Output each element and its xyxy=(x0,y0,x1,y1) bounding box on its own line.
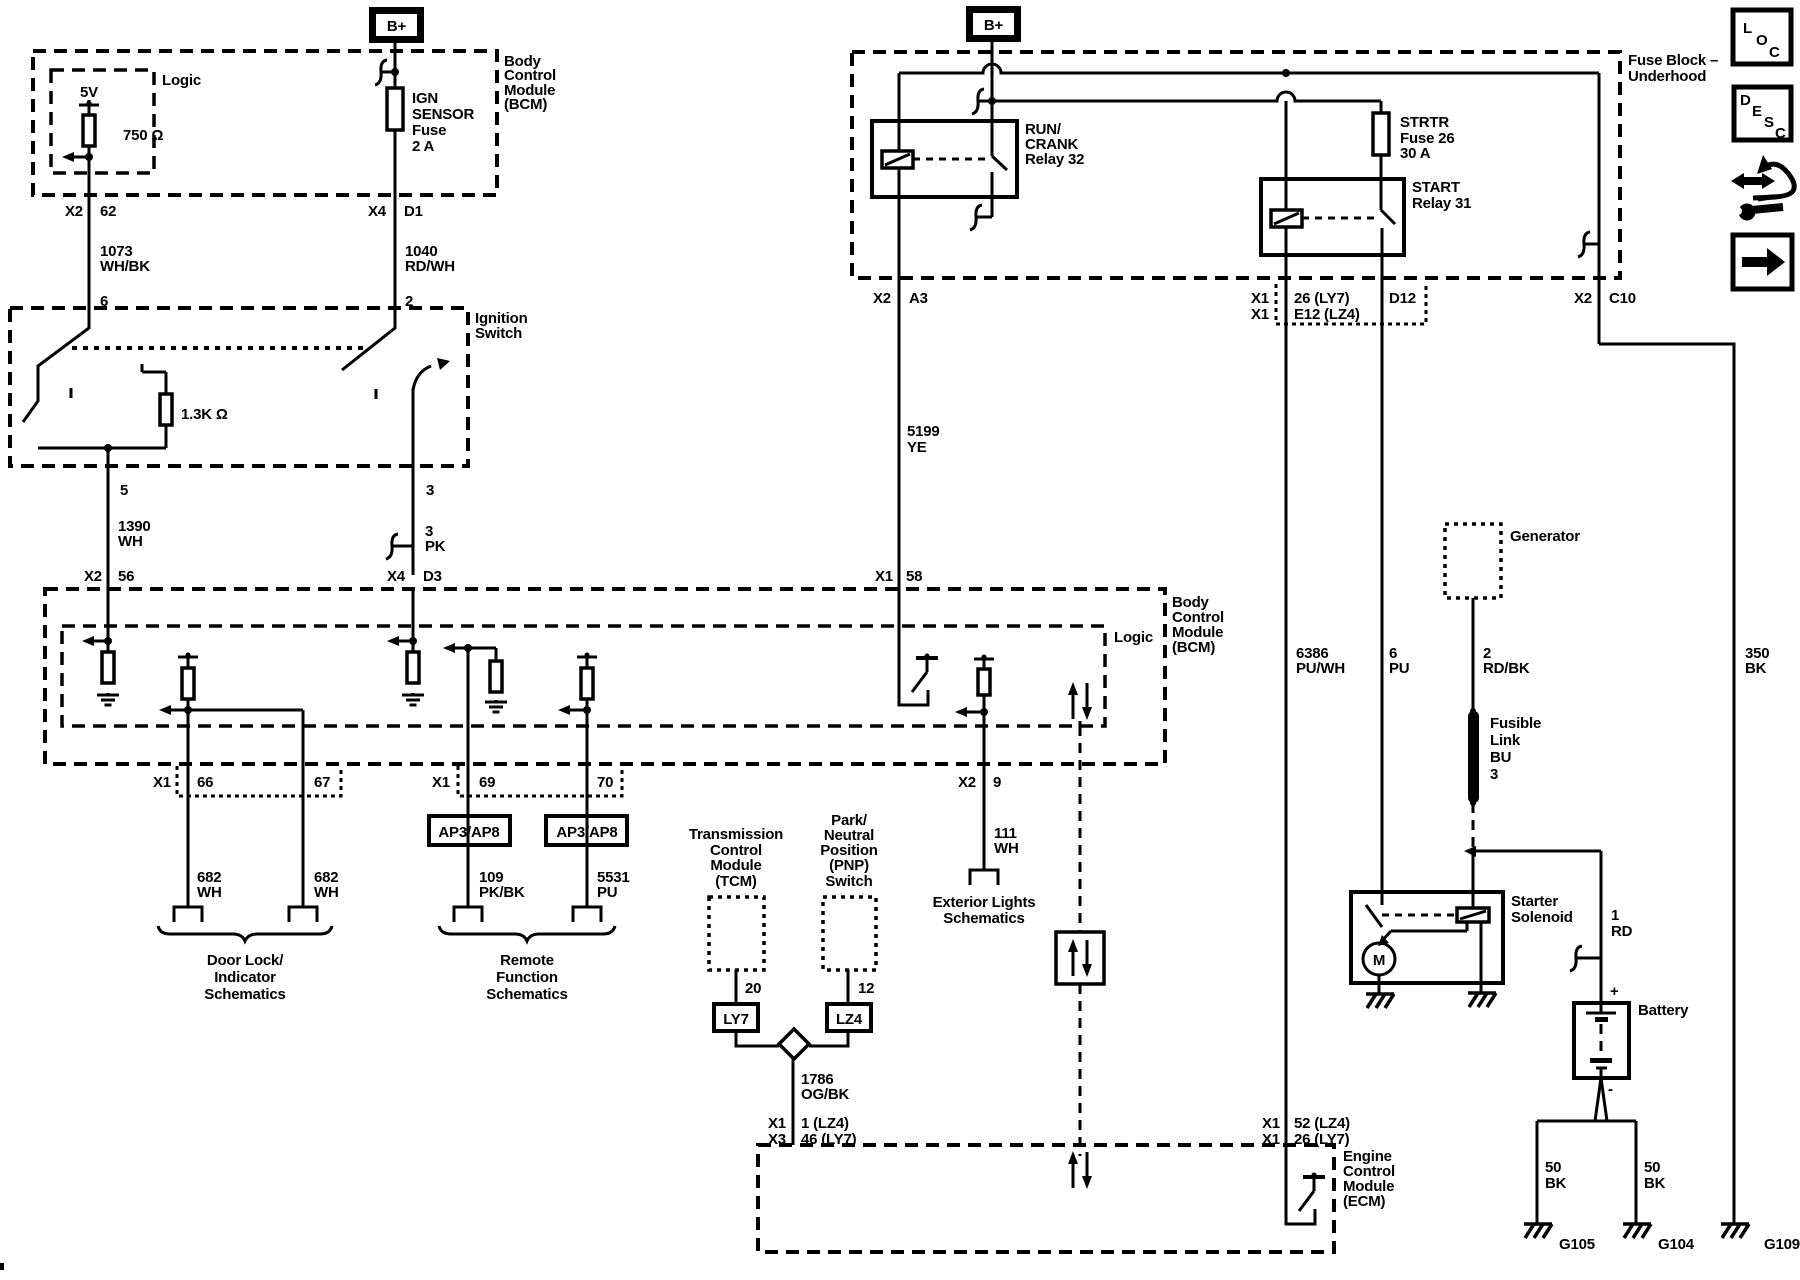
svg-text:69: 69 xyxy=(479,774,495,791)
svg-text:66: 66 xyxy=(197,774,213,791)
svg-text:X2: X2 xyxy=(84,568,102,585)
svg-text:PU: PU xyxy=(597,884,617,901)
svg-text:Underhood: Underhood xyxy=(1628,68,1706,85)
svg-text:Generator: Generator xyxy=(1510,528,1580,545)
svg-text:M: M xyxy=(1373,952,1385,969)
svg-text:X2: X2 xyxy=(1574,290,1592,307)
svg-text:START: START xyxy=(1412,179,1460,196)
svg-text:1 (LZ4): 1 (LZ4) xyxy=(801,1115,849,1132)
svg-text:Remote: Remote xyxy=(500,952,554,969)
svg-text:RD/BK: RD/BK xyxy=(1483,660,1530,677)
svg-text:Door Lock/: Door Lock/ xyxy=(207,952,284,969)
svg-text:BK: BK xyxy=(1745,660,1767,677)
svg-text:50: 50 xyxy=(1644,1159,1660,1176)
svg-text:X1: X1 xyxy=(432,774,450,791)
svg-text:26 (LY7): 26 (LY7) xyxy=(1294,290,1350,307)
svg-text:S: S xyxy=(1764,114,1774,131)
svg-text:D3: D3 xyxy=(423,568,442,585)
svg-text:12: 12 xyxy=(858,980,874,997)
svg-text:AP3/AP8: AP3/AP8 xyxy=(556,824,617,841)
svg-text:D12: D12 xyxy=(1389,290,1416,307)
svg-text:Link: Link xyxy=(1490,732,1521,749)
svg-text:IGN: IGN xyxy=(412,90,438,107)
svg-text:G109: G109 xyxy=(1764,1236,1800,1253)
svg-text:BU: BU xyxy=(1490,749,1511,766)
svg-text:Switch: Switch xyxy=(825,873,872,890)
svg-text:(PNP): (PNP) xyxy=(829,857,869,874)
svg-text:RD: RD xyxy=(1611,923,1633,940)
svg-text:C: C xyxy=(1775,125,1786,142)
svg-text:750 Ω: 750 Ω xyxy=(123,127,163,144)
svg-text:(BCM): (BCM) xyxy=(1172,639,1215,656)
svg-text:58: 58 xyxy=(906,568,922,585)
svg-text:9: 9 xyxy=(993,774,1001,791)
svg-text:62: 62 xyxy=(100,203,116,220)
svg-text:52 (LZ4): 52 (LZ4) xyxy=(1294,1115,1350,1132)
svg-text:LY7: LY7 xyxy=(723,1011,749,1028)
svg-text:Fuse Block –: Fuse Block – xyxy=(1628,52,1718,69)
svg-text:WH/BK: WH/BK xyxy=(100,258,150,275)
svg-text:LZ4: LZ4 xyxy=(836,1011,863,1028)
svg-text:WH: WH xyxy=(197,884,222,901)
svg-text:70: 70 xyxy=(597,774,613,791)
svg-text:67: 67 xyxy=(314,774,330,791)
svg-text:X1: X1 xyxy=(153,774,171,791)
svg-text:Logic: Logic xyxy=(1114,629,1153,646)
svg-text:E12 (LZ4): E12 (LZ4) xyxy=(1294,306,1360,323)
svg-text:B+: B+ xyxy=(984,17,1004,34)
svg-text:Logic: Logic xyxy=(162,72,201,89)
svg-text:X1: X1 xyxy=(1262,1131,1280,1148)
svg-text:PU/WH: PU/WH xyxy=(1296,660,1345,677)
svg-text:STRTR: STRTR xyxy=(1400,114,1449,131)
svg-text:3: 3 xyxy=(426,482,434,499)
svg-text:D: D xyxy=(1740,92,1751,109)
svg-text:5V: 5V xyxy=(80,84,98,101)
svg-text:Schematics: Schematics xyxy=(204,986,285,1003)
svg-text:Schematics: Schematics xyxy=(943,910,1024,927)
svg-text:BK: BK xyxy=(1545,1175,1567,1192)
svg-text:OG/BK: OG/BK xyxy=(801,1086,850,1103)
svg-text:L: L xyxy=(1743,20,1752,37)
svg-text:50: 50 xyxy=(1545,1159,1561,1176)
svg-text:E: E xyxy=(1752,103,1762,120)
svg-text:WH: WH xyxy=(994,840,1019,857)
svg-text:X1: X1 xyxy=(1251,290,1269,307)
svg-text:G105: G105 xyxy=(1559,1236,1595,1253)
svg-text:PK/BK: PK/BK xyxy=(479,884,525,901)
svg-text:(TCM): (TCM) xyxy=(715,873,757,890)
svg-text:Transmission: Transmission xyxy=(689,826,783,843)
svg-text:5: 5 xyxy=(120,482,128,499)
svg-text:PK: PK xyxy=(425,538,446,555)
svg-text:O: O xyxy=(1756,32,1768,49)
svg-text:G104: G104 xyxy=(1658,1236,1695,1253)
svg-text:A3: A3 xyxy=(909,290,928,307)
svg-text:2 A: 2 A xyxy=(412,138,435,155)
svg-text:30 A: 30 A xyxy=(1400,145,1431,162)
svg-text:WH: WH xyxy=(314,884,339,901)
svg-text:WH: WH xyxy=(118,533,143,550)
svg-text:X1: X1 xyxy=(768,1115,786,1132)
svg-text:+: + xyxy=(1610,983,1619,1000)
svg-text:Function: Function xyxy=(496,969,558,986)
svg-text:X2: X2 xyxy=(873,290,891,307)
svg-text:Switch: Switch xyxy=(475,325,522,342)
svg-text:3: 3 xyxy=(1490,766,1498,783)
svg-text:(ECM): (ECM) xyxy=(1343,1193,1386,1210)
svg-text:-: - xyxy=(1608,1081,1613,1098)
svg-text:RD/WH: RD/WH xyxy=(405,258,455,275)
svg-text:1: 1 xyxy=(1611,907,1619,924)
svg-text:Relay 31: Relay 31 xyxy=(1412,195,1471,212)
svg-text:1.3K Ω: 1.3K Ω xyxy=(181,406,228,423)
svg-text:Fusible: Fusible xyxy=(1490,715,1541,732)
svg-text:Relay 32: Relay 32 xyxy=(1025,151,1084,168)
svg-text:56: 56 xyxy=(118,568,134,585)
svg-text:X1: X1 xyxy=(1262,1115,1280,1132)
svg-text:C: C xyxy=(1769,44,1780,61)
svg-text:Module: Module xyxy=(710,857,761,874)
svg-text:Exterior Lights: Exterior Lights xyxy=(933,894,1036,911)
svg-text:X4: X4 xyxy=(387,568,406,585)
svg-text:X2: X2 xyxy=(65,203,83,220)
svg-text:C10: C10 xyxy=(1609,290,1636,307)
svg-text:D1: D1 xyxy=(404,203,423,220)
svg-text:(BCM): (BCM) xyxy=(504,96,547,113)
svg-text:Fuse: Fuse xyxy=(412,122,446,139)
svg-text:20: 20 xyxy=(745,980,761,997)
svg-text:26 (LY7): 26 (LY7) xyxy=(1294,1131,1350,1148)
svg-text:X2: X2 xyxy=(958,774,976,791)
svg-text:X4: X4 xyxy=(368,203,387,220)
svg-text:X1: X1 xyxy=(1251,306,1269,323)
svg-text:BK: BK xyxy=(1644,1175,1666,1192)
svg-text:Battery: Battery xyxy=(1638,1002,1689,1019)
svg-text:B+: B+ xyxy=(387,18,407,35)
svg-text:PU: PU xyxy=(1389,660,1409,677)
svg-text:X1: X1 xyxy=(875,568,893,585)
svg-text:SENSOR: SENSOR xyxy=(412,106,475,123)
svg-text:Solenoid: Solenoid xyxy=(1511,909,1573,926)
svg-text:Starter: Starter xyxy=(1511,893,1558,910)
svg-text:AP3/AP8: AP3/AP8 xyxy=(438,824,499,841)
svg-text:5199: 5199 xyxy=(907,423,940,440)
svg-text:Indicator: Indicator xyxy=(214,969,276,986)
svg-text:YE: YE xyxy=(907,439,927,456)
svg-text:Schematics: Schematics xyxy=(486,986,567,1003)
